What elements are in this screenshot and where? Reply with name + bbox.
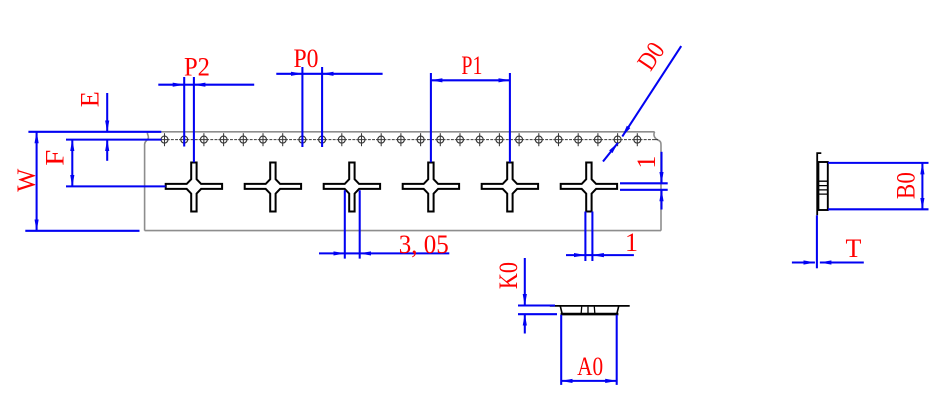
dimension P2 extension right (pocket center): [193, 77, 195, 162]
dimension K0 line lower: [524, 314, 526, 333]
sprocket hole 20: [535, 133, 542, 146]
section view pocket trapezoid sides: [560, 306, 618, 314]
svg-text:W: W: [12, 168, 41, 191]
section view slot ticks: [581, 307, 595, 313]
component pocket cross 3: [324, 163, 380, 212]
dimension A0 extension right: [616, 315, 618, 385]
dimension P0 extension left: [301, 67, 303, 147]
dimension 1 (slot height) extension top: [620, 182, 668, 184]
dimension B0 extension top: [828, 162, 929, 164]
dimension F extension bottom: [66, 185, 166, 187]
sprocket hole 18: [496, 133, 503, 146]
dimension P2 line: [158, 84, 184, 86]
sprocket hole 16: [457, 133, 464, 146]
sprocket hole 10: [338, 133, 345, 146]
section view tape surface line: [550, 305, 630, 307]
dimension 3,05 extension right: [359, 190, 361, 258]
side view pocket profile rectangle: [818, 162, 827, 210]
sprocket hole 9: [319, 133, 326, 146]
svg-text:B0: B0: [892, 172, 921, 199]
svg-text:1: 1: [625, 228, 638, 257]
sprocket hole 17: [476, 133, 483, 146]
dimension P0 extension right: [321, 67, 323, 147]
dimension K0 line upper: [524, 258, 526, 306]
carrier tape right edge with break notch: [654, 132, 661, 231]
sprocket hole 3: [200, 133, 207, 146]
component pocket cross 5: [482, 163, 538, 212]
dimension B0 extension bottom: [828, 208, 929, 210]
dimension P1 line: [431, 79, 510, 81]
dimension F line: [71, 140, 73, 187]
svg-text:E: E: [75, 91, 104, 107]
dimension P1 extension right: [509, 73, 511, 162]
sprocket hole 1: [161, 133, 168, 146]
dimension B0 line: [921, 163, 923, 209]
sprocket hole 4: [220, 133, 227, 146]
sprocket hole 19: [516, 133, 523, 146]
section view pocket bottom: [561, 313, 619, 316]
sprocket hole 7: [279, 133, 286, 146]
dimension K0 extension bottom: [518, 313, 557, 315]
carrier tape top edge: [148, 131, 654, 133]
sprocket hole 23: [594, 133, 601, 146]
sprocket hole 5: [240, 133, 247, 146]
dimension 3,05 extension left: [344, 190, 346, 258]
dimension A0 line: [561, 380, 617, 382]
dimension E line upper: [106, 93, 108, 132]
dimension P0 line: [276, 73, 302, 75]
svg-text:3, 05: 3, 05: [399, 230, 449, 259]
dimension W line: [36, 132, 38, 231]
dimension D0 leader lower segment: [603, 143, 618, 162]
dimension T extension (tape edge extended): [816, 215, 818, 268]
side view pocket slot lines: [818, 181, 827, 194]
dimension 1 (slot height) extension bottom: [620, 189, 668, 191]
svg-text:T: T: [845, 234, 861, 263]
component pocket cross 4: [403, 163, 459, 212]
svg-text:K0: K0: [494, 262, 523, 289]
sprocket hole 8: [299, 133, 306, 146]
sprocket hole 6: [260, 133, 267, 146]
dimension W extension bottom: [25, 230, 139, 232]
sprocket hole 22: [575, 133, 582, 146]
dimension T line left: [792, 261, 815, 263]
dimension P1 extension left: [430, 73, 432, 162]
dimension D0 leader upper segment: [622, 46, 681, 136]
svg-text:P0: P0: [294, 44, 319, 73]
dimension 1 (slot height) line: [660, 152, 662, 184]
sprocket hole 25: [634, 133, 641, 146]
svg-text:1: 1: [632, 156, 661, 169]
dimension 1 (slot width) extension right: [591, 212, 593, 262]
dimension 1 (slot width) extension left: [584, 212, 586, 262]
dimension A0 extension left: [560, 315, 562, 385]
carrier tape left edge with break jog: [145, 132, 149, 231]
side view tape edge line: [816, 152, 821, 215]
sprocket hole 15: [437, 133, 444, 146]
sprocket hole 24: [614, 133, 621, 146]
dimension P2 extension left (sprocket hole center): [183, 77, 185, 147]
svg-text:P1: P1: [461, 51, 482, 80]
sprocket hole 13: [397, 133, 404, 146]
component pocket cross 6: [561, 163, 617, 212]
sprocket hole 11: [358, 133, 365, 146]
carrier tape bottom edge: [145, 230, 661, 232]
sprocket hole 12: [378, 133, 385, 146]
dimension 1 (slot width) line: [566, 254, 585, 256]
sprocket hole 21: [555, 133, 562, 146]
dimension 3,05 line: [319, 252, 345, 254]
svg-text:P2: P2: [184, 53, 210, 82]
svg-text:A0: A0: [577, 352, 603, 381]
svg-text:F: F: [41, 150, 70, 166]
sprocket hole centerline dashes: [151, 139, 658, 141]
dimension E line lower: [106, 140, 108, 161]
sprocket hole 2: [181, 133, 188, 146]
dimension W extension top: [28, 131, 161, 133]
component pocket cross 1: [166, 163, 222, 212]
dimension T line right: [820, 261, 864, 263]
dimension K0 extension top: [518, 304, 555, 306]
component pocket cross 2: [245, 163, 301, 212]
sprocket hole 14: [417, 133, 424, 146]
dimension F extension top: [66, 139, 161, 141]
